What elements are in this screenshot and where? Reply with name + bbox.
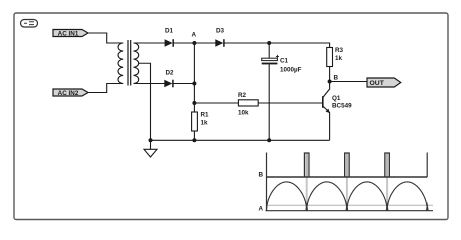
diode D2 (164, 70, 174, 88)
waveform plot (259, 153, 434, 213)
junction R1 rail (192, 138, 196, 142)
svg-text:1k: 1k (201, 119, 209, 126)
resistor R3 (327, 47, 344, 67)
ground rail (151, 139, 330, 141)
wire R2 to base of Q1 (258, 102, 322, 104)
svg-text:BC549: BC549 (332, 103, 352, 110)
svg-text:OUT: OUT (370, 80, 385, 87)
wire center tap down to ground rail (139, 63, 151, 140)
ground symbol (144, 140, 157, 157)
svg-text:D1: D1 (165, 28, 174, 35)
svg-text:D3: D3 (216, 28, 225, 35)
junction C1 bottom rail (267, 138, 271, 142)
baseline A (266, 210, 434, 212)
connector AC IN2 (53, 89, 88, 97)
resistor R1 (192, 112, 209, 132)
svg-text:AC IN1: AC IN1 (58, 30, 79, 37)
junction C1 top (267, 41, 271, 45)
transformer T1 secondary winding (134, 43, 139, 84)
svg-text:1000µF: 1000µF (280, 67, 302, 74)
wire node A to D3 (194, 42, 215, 44)
waveform B line (267, 176, 428, 178)
gray pulse bands (305, 154, 308, 178)
svg-text:R3: R3 (335, 47, 344, 54)
wire AC IN1 to transformer primary top (88, 33, 123, 43)
svg-text:B: B (259, 171, 264, 178)
svg-text:AC IN2: AC IN2 (58, 90, 79, 97)
svg-text:R1: R1 (201, 112, 210, 119)
svg-text:1k: 1k (335, 55, 343, 62)
connector OUT (367, 78, 401, 87)
node A (192, 32, 197, 46)
wire D1 to node A (174, 42, 195, 44)
svg-text:R2: R2 (238, 92, 247, 99)
connector AC IN1 (53, 30, 88, 38)
dip wedges (305, 202, 308, 211)
transformer core (128, 40, 131, 86)
logo (21, 20, 38, 28)
wire node A down to R1 (193, 43, 195, 112)
transformer T1 primary winding (118, 43, 123, 84)
svg-text:D2: D2 (165, 70, 174, 77)
transistor Q1 (323, 82, 352, 141)
waveform A sine humps (267, 182, 428, 211)
svg-text:C1: C1 (280, 57, 289, 64)
pulse outlines (304, 153, 309, 177)
diode D1 (165, 28, 174, 47)
last pulse edge (426, 153, 428, 178)
wire D2 to vertical node line (173, 83, 194, 85)
wire R3 bottom to node B (329, 67, 331, 82)
junction base wire (192, 101, 196, 105)
wire secondary bottom to D2 (134, 83, 165, 85)
capacitor C1 (262, 43, 302, 140)
threshold gray line (267, 204, 434, 206)
junction D2 (192, 82, 196, 86)
svg-text:B: B (334, 75, 339, 82)
wire node B to OUT (330, 81, 367, 83)
svg-text:A: A (259, 206, 264, 213)
node B (328, 75, 339, 84)
wire base junction to R2 (194, 102, 238, 104)
svg-text:10k: 10k (238, 109, 249, 116)
wire R1 bottom to rail (193, 131, 195, 140)
svg-text:Q1: Q1 (332, 95, 341, 102)
wire D3 to R3 top corner (224, 43, 329, 48)
svg-text:A: A (192, 32, 197, 39)
wire secondary top to D1 (134, 42, 165, 44)
wire AC IN2 to transformer primary bottom (88, 84, 123, 93)
diode D3 (215, 28, 224, 47)
resistor R2 (238, 92, 258, 116)
left axis first pulse edge (266, 153, 268, 211)
ground junction (149, 138, 153, 142)
